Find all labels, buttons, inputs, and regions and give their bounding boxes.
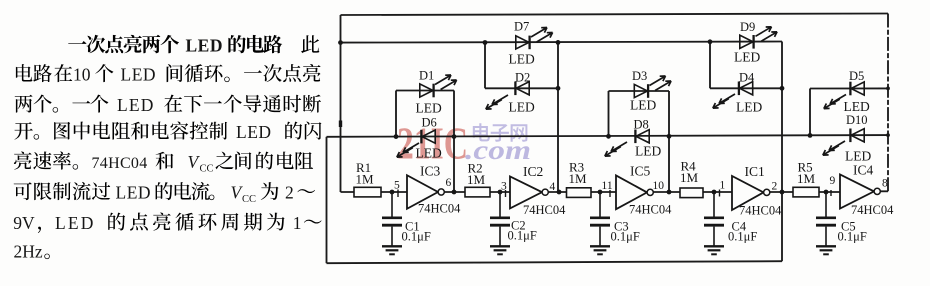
svg-text:1M: 1M [356,172,375,187]
node: C4 tap [712,190,717,195]
svg-text:LED: LED [416,101,442,116]
svg-text:1M: 1M [569,171,588,186]
wire: D1/D6 left vertical [395,91,397,137]
op-amp style inverter IC1 74HC04 [732,176,764,210]
capacitor C5 0.1uF [816,192,836,254]
node: IC2 out / D7-D2 [557,190,562,195]
LED D9 [740,35,754,49]
svg-text:0.1μF: 0.1μF [402,230,431,244]
node: IC3 out / D1-D6 [452,190,457,195]
svg-text:D1: D1 [419,69,434,83]
svg-text:LED: LED [116,183,152,203]
svg-text:D8: D8 [634,118,649,132]
svg-text:LED: LED [844,99,870,114]
wire: D4 row [710,87,782,89]
svg-text:LED: LED [55,213,96,233]
svg-text:CC: CC [242,194,256,205]
node: IC1 out / D9-D4 [780,190,785,195]
resistor R5 1M [793,187,819,197]
LED D1 [420,84,434,98]
svg-text:6: 6 [446,177,452,189]
capacitor C3 0.1uF [590,192,610,254]
svg-text:IC2: IC2 [523,164,543,179]
resistor R1 1M [354,187,381,197]
svg-text:0.1μF: 0.1μF [611,230,640,244]
svg-text:3: 3 [501,181,507,193]
paragraph: circuit description text [13,35,321,262]
svg-text:10: 10 [73,65,91,85]
node: main rail at x608.5 [606,134,611,139]
svg-text:LED: LED [635,144,661,159]
svg-text:9: 9 [830,175,836,187]
LED D5 [850,82,864,96]
svg-text:5: 5 [394,180,400,192]
LED D8 [635,130,649,144]
wire: D1 row [396,90,454,92]
wire: IC5 output to R4 [654,191,681,193]
node: second rail at x558 [556,40,561,45]
wire: D1/D6 right vertical down to IC3 output [453,91,455,193]
svg-text:IC3: IC3 [420,164,441,179]
node: D2 row at x558 [556,86,561,91]
svg-text:LED: LED [509,52,535,67]
resistor R4 1M [680,188,703,198]
wire: R5 to IC4 [819,191,840,193]
svg-text:11: 11 [602,180,613,192]
node: D4 row at x782 [780,86,785,91]
svg-text:74HC04: 74HC04 [739,204,782,218]
svg-text:LED: LED [236,122,272,142]
wire: IC2 output to R3 [549,191,567,193]
wire: D5 row [810,87,888,89]
wire: IC4 output to right vertical [881,190,889,192]
wire: right loop vertical x782 (IC1 output to D9/D4 and bottom rail) [781,42,783,262]
svg-text:74HC04: 74HC04 [851,203,894,217]
svg-text:IC5: IC5 [630,164,651,179]
node: C1 tap [390,190,395,195]
svg-text:IC1: IC1 [745,164,765,179]
svg-text:2: 2 [772,181,778,193]
junction artifact on feedback line [339,121,342,128]
wire: R4 to IC1 [703,191,732,193]
svg-text:LED: LED [845,149,871,164]
svg-text:2: 2 [285,183,294,203]
wire: D2 row [485,87,558,89]
svg-text:LED: LED [121,65,157,85]
svg-text:D6: D6 [422,116,437,130]
svg-text:74HC04: 74HC04 [523,203,566,217]
node: main rail at x810 [808,133,813,138]
op-amp style inverter IC5 74HC04 [616,175,647,209]
wire: top feedback rail [341,14,889,16]
svg-text:74HC04: 74HC04 [418,202,461,216]
resistor R2 1M [465,187,490,197]
resistor R3 1M [567,188,592,198]
node: second rail at x485 [483,40,488,45]
op-amp style inverter IC2 74HC04 [510,177,542,209]
node: C2 tap [498,190,503,195]
LED D7 [516,36,530,50]
wire: left loop vertical x326 [326,137,328,263]
svg-text:LED: LED [117,95,155,115]
wire: D7-D2 right vertical down to IC2 output [557,42,559,192]
wire: right vertical x888 (top rail down to IC4 output) [887,14,889,192]
wire: D5-D10 left vertical [809,89,811,136]
svg-text:0.1μF: 0.1μF [508,229,537,243]
svg-text:LED: LED [734,50,760,65]
wire: D3 row [609,90,670,92]
wire: bottom rail [327,261,783,263]
wire: main rail (D6/D8/D10 row) [327,135,889,137]
svg-text:10: 10 [653,180,665,192]
svg-text:74HC04: 74HC04 [92,155,148,172]
svg-text:0.1μF: 0.1μF [728,230,757,244]
wire: IC1 output to R5 [770,191,793,193]
watermark dianziwang [473,123,528,142]
svg-text:74HC04: 74HC04 [629,203,672,217]
capacitor C1 0.1uF [382,192,402,254]
wire: R3 to IC5 [591,191,616,193]
svg-text:D5: D5 [849,69,864,83]
node: main rail at right vertical [886,133,890,137]
svg-text:1M: 1M [680,170,699,185]
svg-text:D3: D3 [632,69,647,83]
node: C3 tap [598,190,603,195]
wire: D3/D8 right vertical down to IC5 output [668,91,670,192]
capacitor C2 0.1uF [490,192,510,254]
node: D5 row at right vertical [886,87,890,91]
svg-text:1: 1 [293,213,302,233]
svg-text:D7: D7 [514,20,529,34]
pin stubs [398,190,831,198]
LED D4 [739,82,753,96]
wire: IC3 output to R2 [445,191,466,193]
LED D6 [421,130,435,144]
svg-text:LED: LED [630,98,656,113]
LED D2 [515,82,529,96]
svg-text:LED: LED [416,146,442,161]
svg-text:1M: 1M [467,172,486,187]
LED D10 [850,129,864,143]
svg-text:9V: 9V [13,213,35,233]
node: main rail at x454 [452,134,457,139]
svg-text:0.1μF: 0.1μF [838,230,867,244]
svg-text:D2: D2 [515,71,530,85]
wire: second rail (D7/D9 row) [341,42,783,43]
svg-text:1: 1 [720,180,726,192]
node: junction feedback/second rail [338,40,343,45]
svg-text:D4: D4 [739,71,755,85]
svg-text:LED: LED [186,36,223,56]
node: IC5 out / D3-D8 [667,190,672,195]
node: C5 tap [824,190,829,195]
wire: D9-D4 left vertical [709,42,711,89]
svg-text:D9: D9 [740,20,755,34]
wire: left feedback vertical to R1 [340,15,342,192]
svg-text:4: 4 [550,181,556,193]
wire: R1 leads [341,191,408,193]
op-amp style inverter IC4 74HC04 [840,175,874,209]
node: main rail at x396 [394,134,399,139]
svg-text:LED: LED [509,100,535,115]
LED D3 [634,84,648,98]
capacitor C4 0.1uF [704,192,724,254]
wire: D7-D2 left vertical [484,43,486,89]
svg-text:D10: D10 [846,113,868,127]
wire: R2 to IC2 [490,191,510,193]
svg-text:1M: 1M [797,171,816,186]
svg-text:LED: LED [736,100,762,115]
svg-text:2Hz: 2Hz [14,242,43,262]
node: second rail at x710 [708,39,713,44]
svg-text:IC4: IC4 [853,163,874,178]
op-amp style inverter IC3 74HC04 [407,175,438,209]
wire: D3/D8 left vertical [608,91,610,136]
svg-text:8: 8 [882,178,888,190]
svg-text:CC: CC [200,164,214,175]
node: main rail at x669 [667,134,672,139]
